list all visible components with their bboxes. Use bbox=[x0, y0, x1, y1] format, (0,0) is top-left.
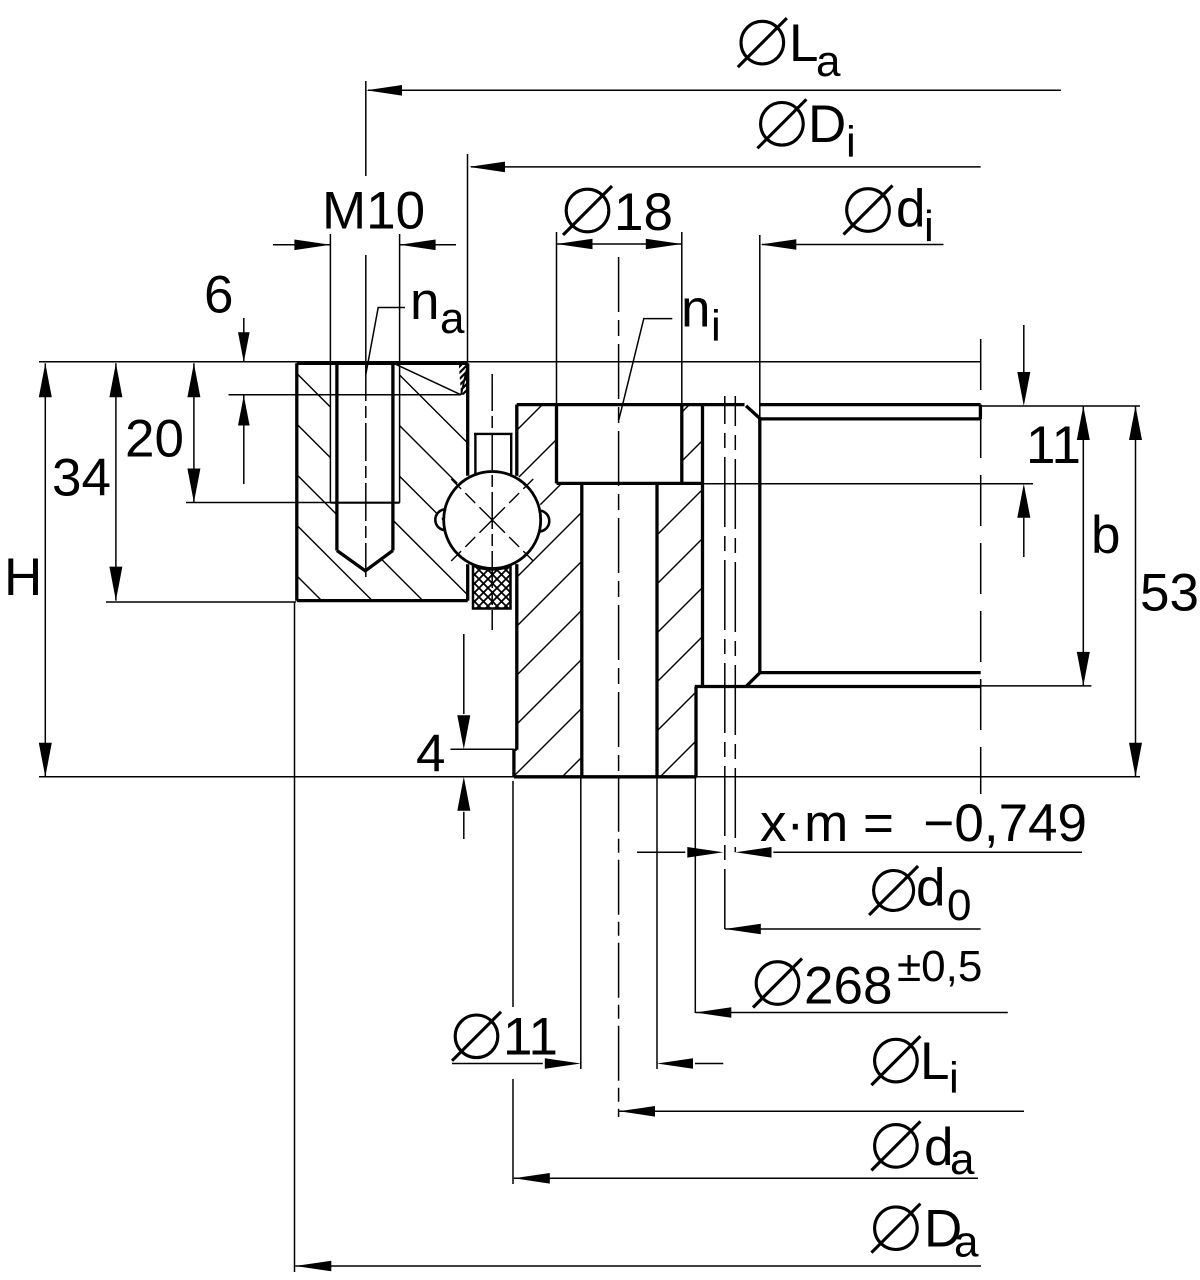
dim 4 lower stem bbox=[463, 812, 465, 839]
ball centerline bbox=[491, 374, 493, 630]
svg-text:M10: M10 bbox=[322, 181, 425, 240]
cage wall right bbox=[510, 434, 512, 474]
svg-text:268: 268 bbox=[804, 957, 892, 1016]
counterbore wall right (d18) bbox=[680, 405, 683, 484]
ext line d18 right bbox=[681, 232, 683, 405]
top recess chamfer bbox=[746, 406, 761, 419]
inner ring section hatching bbox=[167, 400, 1037, 780]
svg-text:H: H bbox=[4, 548, 42, 607]
dim line 268 bbox=[695, 1012, 1008, 1014]
bolt hole wall right (d11) bbox=[655, 483, 658, 776]
ext line 11 right bbox=[656, 777, 658, 1069]
outer ring section hatching bbox=[280, 205, 480, 759]
drill hole left (minor) bbox=[335, 363, 338, 550]
ext line step face right bbox=[981, 685, 1092, 687]
ext line 4 top bbox=[451, 748, 514, 750]
label dia da bbox=[871, 1121, 920, 1170]
dim line Di bbox=[471, 166, 981, 168]
svg-text:53: 53 bbox=[1140, 564, 1199, 623]
dim line M10 right bbox=[400, 244, 456, 246]
ext line Di bbox=[467, 154, 469, 362]
cage top bbox=[474, 433, 513, 435]
bottom step bbox=[514, 749, 517, 751]
svg-text:18: 18 bbox=[614, 183, 673, 242]
svg-text:L: L bbox=[789, 14, 818, 73]
svg-text:d: d bbox=[916, 859, 945, 918]
leader n_a bbox=[366, 308, 405, 376]
svg-text:i: i bbox=[711, 302, 721, 351]
dim line d11 left bbox=[452, 1063, 543, 1065]
label dia Da bbox=[871, 1204, 920, 1253]
outer ring bore edge lower bbox=[466, 564, 469, 601]
ball contact diagonal 2 bbox=[449, 477, 536, 564]
thread tick marks bbox=[457, 358, 469, 413]
label dia Li bbox=[871, 1036, 920, 1085]
dim line 20 bbox=[193, 363, 195, 502]
counterbore bottom face bbox=[557, 482, 704, 485]
dim line La bbox=[368, 89, 1061, 91]
ext line di bbox=[759, 235, 761, 419]
svg-text:a: a bbox=[816, 37, 841, 86]
label dia La bbox=[738, 18, 787, 67]
svg-text:i: i bbox=[924, 202, 934, 251]
svg-text:n: n bbox=[681, 280, 710, 339]
inner ring left edge upper bbox=[515, 405, 518, 476]
ext line Da bbox=[294, 602, 296, 1272]
dim line d18 bbox=[557, 243, 682, 245]
dim 11 upper stem bbox=[1023, 325, 1025, 372]
svg-text:a: a bbox=[440, 294, 465, 343]
svg-text:6: 6 bbox=[204, 265, 233, 324]
label dia Di bbox=[757, 99, 806, 148]
inner bolt hole centerline bbox=[618, 257, 620, 777]
svg-text:a: a bbox=[954, 1218, 979, 1267]
svg-text:±0,5: ±0,5 bbox=[897, 942, 982, 991]
ball contact diagonal 1 bbox=[449, 477, 536, 564]
gear bottom step face bbox=[695, 685, 981, 688]
dim xm left stem bbox=[637, 851, 685, 853]
gear tooth tip line bbox=[758, 419, 761, 673]
ext line top face right bbox=[981, 405, 1140, 407]
ext line bottom face left bbox=[39, 776, 514, 778]
dim line di bbox=[762, 244, 944, 246]
dim line Li bbox=[619, 1110, 1024, 1112]
ext line da upper bbox=[512, 781, 514, 1007]
ext line M10 right bbox=[399, 234, 401, 362]
dim line H bbox=[44, 363, 46, 777]
svg-text:i: i bbox=[846, 118, 856, 167]
gear root section wall bbox=[701, 406, 704, 687]
ext line counterbore right bbox=[703, 483, 1033, 485]
ext line da lower bbox=[512, 1079, 514, 1184]
inner ring top face right of chamfer bbox=[760, 403, 981, 406]
ext line M10 left bbox=[329, 234, 331, 362]
dim xm right bbox=[773, 851, 1082, 853]
top face extension line bbox=[39, 361, 981, 363]
dim 6 upper stem bbox=[243, 318, 245, 362]
left raceway relief arc bbox=[435, 509, 446, 530]
drill hole right (minor) bbox=[391, 363, 394, 550]
leader n_i bbox=[619, 319, 673, 420]
svg-text:20: 20 bbox=[125, 410, 184, 469]
ext line 11 left bbox=[580, 777, 582, 1069]
svg-text:4: 4 bbox=[416, 725, 445, 784]
outer ring bottom face bbox=[297, 599, 468, 602]
thread major right bbox=[399, 363, 401, 502]
outer ring top face bbox=[297, 362, 468, 365]
dim line b bbox=[1082, 406, 1084, 686]
ext line bottom face right bbox=[697, 776, 1141, 778]
bolt hole centerline upper (La ext) bbox=[365, 81, 367, 176]
bore bottom face bbox=[760, 671, 981, 674]
svg-text:a: a bbox=[950, 1135, 975, 1184]
recess lip right cap bbox=[979, 405, 982, 419]
ext line 268 bbox=[694, 777, 696, 1013]
svg-text:n: n bbox=[410, 272, 439, 331]
dim 6 lower stem bbox=[243, 396, 245, 485]
svg-text:x·m = −0,749: x·m = −0,749 bbox=[760, 794, 1087, 853]
seal groove line (6 ref) bbox=[229, 394, 462, 396]
dim line Da bbox=[295, 1265, 981, 1267]
svg-text:0: 0 bbox=[947, 881, 971, 930]
bolt hole centerline mid bbox=[365, 255, 367, 361]
outer ring bore edge upper bbox=[466, 363, 469, 476]
seal crosshatch bbox=[425, 521, 566, 654]
dim line 34 bbox=[115, 363, 117, 600]
inner ring bottom face bbox=[514, 775, 697, 778]
svg-text:D: D bbox=[808, 95, 846, 154]
ext line d18 left bbox=[556, 232, 558, 405]
thread major left bbox=[329, 363, 331, 502]
inner ring left edge lower bbox=[515, 564, 518, 750]
label dia 18 bbox=[563, 186, 612, 235]
svg-text:11: 11 bbox=[503, 1008, 558, 1067]
bolt hole centerline in part bbox=[365, 363, 367, 577]
ball bbox=[444, 472, 541, 569]
ext line 34 bottom bbox=[106, 601, 296, 603]
bolt hole wall left (d11) bbox=[580, 483, 583, 776]
svg-text:b: b bbox=[1091, 506, 1120, 565]
drill point bbox=[337, 551, 393, 571]
svg-text:11: 11 bbox=[1026, 416, 1081, 475]
label dia 268 bbox=[753, 959, 802, 1008]
dim 11 lower stem bbox=[1023, 518, 1025, 557]
bottom chamfer bbox=[746, 673, 760, 687]
label dia d0 bbox=[869, 866, 918, 915]
outer ring left edge (OD) bbox=[295, 363, 298, 600]
inner hole centerline ext (Li) bbox=[618, 777, 620, 1117]
label dia di bbox=[844, 186, 893, 235]
dim line d11 right bbox=[695, 1063, 723, 1065]
svg-text:34: 34 bbox=[52, 449, 111, 508]
counterbore wall left (d18) bbox=[555, 405, 558, 484]
inner ring top face bbox=[517, 403, 745, 406]
gear root wall lower bbox=[694, 687, 697, 777]
seal outline bbox=[473, 566, 511, 609]
dim 4 upper stem bbox=[463, 634, 465, 714]
top recess face bbox=[761, 417, 981, 420]
dim line d0 bbox=[725, 928, 981, 930]
label dia 11 bbox=[452, 1012, 501, 1061]
svg-text:d: d bbox=[896, 180, 925, 239]
bottom step edge bbox=[512, 750, 515, 777]
dim line M10 left bbox=[273, 244, 330, 246]
gear reference line bbox=[734, 396, 736, 852]
gear pitch line d0 bbox=[724, 396, 726, 929]
right raceway relief arc bbox=[539, 511, 550, 532]
groove flank line A bbox=[396, 364, 461, 394]
thread bottom line bbox=[330, 502, 399, 504]
ext line 20 bottom bbox=[186, 502, 330, 504]
dim line da bbox=[514, 1177, 978, 1179]
svg-text:i: i bbox=[949, 1054, 959, 1103]
dim line 53 bbox=[1135, 406, 1137, 777]
bore dashed line bbox=[980, 339, 982, 794]
svg-text:L: L bbox=[920, 1032, 949, 1091]
groove flank line B bbox=[461, 366, 468, 395]
cage wall left bbox=[474, 434, 476, 474]
